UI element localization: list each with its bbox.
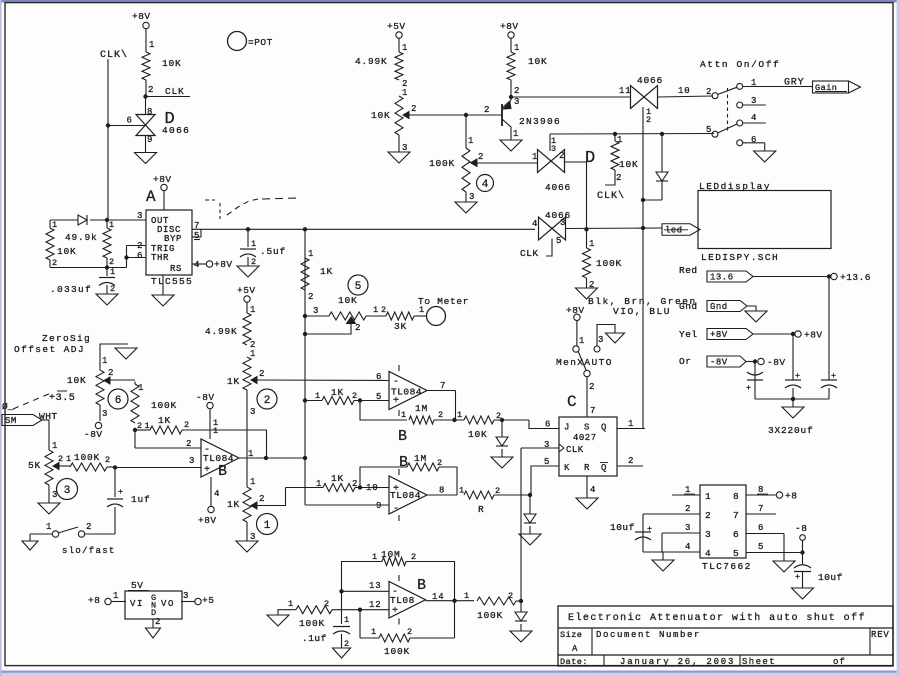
svg-text:2: 2 (381, 305, 387, 315)
svg-text:RS: RS (170, 264, 182, 274)
svg-text:1: 1 (138, 383, 144, 393)
svg-text:3: 3 (551, 144, 557, 154)
svg-text:1: 1 (250, 477, 256, 487)
svg-text:2: 2 (411, 552, 417, 562)
svg-text:+: + (647, 524, 653, 534)
svg-text:+: + (118, 487, 124, 497)
svg-text:MenXAUTO: MenXAUTO (556, 357, 613, 368)
svg-text:-8V: -8V (710, 358, 728, 368)
svg-text:1: 1 (401, 410, 407, 420)
svg-text:VI: VI (130, 599, 144, 609)
svg-text:2: 2 (186, 439, 192, 449)
svg-text:1: 1 (308, 249, 314, 259)
svg-text:4.99K: 4.99K (355, 56, 388, 67)
svg-text:6: 6 (376, 372, 382, 382)
svg-text:-8V: -8V (84, 429, 103, 440)
svg-text:13: 13 (369, 581, 381, 591)
svg-text:R: R (478, 504, 485, 515)
svg-text:+8: +8 (785, 491, 797, 502)
svg-text:+: + (831, 371, 837, 381)
svg-text:CLK: CLK (165, 86, 185, 97)
svg-text:10: 10 (366, 483, 378, 493)
svg-text:1K: 1K (227, 499, 240, 510)
svg-text:2: 2 (685, 504, 691, 514)
svg-text:2: 2 (514, 86, 520, 96)
svg-text:3: 3 (183, 591, 189, 601)
svg-text:-: - (393, 504, 400, 515)
svg-text:1K: 1K (158, 415, 171, 426)
svg-text:K: K (564, 463, 570, 473)
svg-text:B: B (218, 463, 227, 480)
svg-text:+5V: +5V (387, 21, 406, 32)
svg-text:ZeroSig: ZeroSig (42, 333, 91, 344)
svg-text:+8V: +8V (198, 515, 217, 526)
svg-text:of: of (833, 657, 846, 667)
svg-text:1: 1 (514, 43, 520, 53)
svg-text:2: 2 (264, 395, 271, 407)
svg-text:+5V: +5V (237, 285, 256, 296)
svg-text:6: 6 (758, 523, 764, 533)
svg-text:2: 2 (646, 115, 652, 125)
svg-text:4: 4 (705, 548, 712, 559)
svg-text:+3.5: +3.5 (49, 393, 75, 404)
svg-text:2: 2 (52, 258, 58, 268)
svg-text:10uf: 10uf (610, 522, 635, 533)
svg-text:1: 1 (110, 267, 116, 277)
svg-text:S: S (584, 423, 590, 433)
svg-text:1: 1 (102, 356, 108, 366)
svg-text:-8V: -8V (767, 357, 786, 368)
svg-text:2: 2 (478, 152, 484, 162)
svg-text:7: 7 (733, 510, 740, 521)
svg-text:1K: 1K (320, 266, 333, 277)
svg-text:3: 3 (560, 218, 566, 228)
svg-text:+: + (746, 383, 752, 393)
svg-text:2: 2 (355, 323, 361, 333)
svg-text:slo/fast: slo/fast (62, 546, 116, 556)
svg-text:A: A (572, 644, 578, 654)
svg-text:6: 6 (733, 529, 740, 540)
svg-text:Yel: Yel (679, 329, 698, 340)
svg-text:10K: 10K (162, 58, 182, 69)
svg-text:Offset ADJ: Offset ADJ (14, 344, 85, 355)
svg-text:-8: -8 (795, 523, 807, 534)
svg-text:Or: Or (679, 356, 691, 367)
svg-text:CLK\: CLK\ (100, 49, 128, 61)
svg-text:.5uf: .5uf (260, 246, 286, 257)
svg-text:+5: +5 (202, 595, 214, 606)
svg-text:+: + (392, 606, 399, 617)
svg-text:4.99K: 4.99K (205, 326, 238, 337)
svg-text:7: 7 (440, 381, 446, 391)
svg-text:SM: SM (5, 416, 17, 426)
svg-text:led: led (665, 226, 683, 236)
svg-text:6: 6 (751, 135, 757, 145)
svg-text:10K: 10K (619, 159, 639, 170)
svg-text:4066: 4066 (162, 125, 190, 136)
svg-text:1: 1 (213, 426, 219, 436)
svg-text:1: 1 (705, 491, 712, 502)
svg-text:-: - (204, 445, 211, 456)
svg-text:1: 1 (685, 485, 691, 495)
svg-text:1: 1 (52, 441, 58, 451)
svg-text:2: 2 (108, 368, 114, 378)
svg-text:2: 2 (155, 617, 161, 627)
svg-text:1: 1 (149, 40, 155, 50)
svg-text:1: 1 (315, 391, 321, 401)
svg-text:4: 4 (532, 219, 538, 229)
svg-text:TLC555: TLC555 (151, 276, 193, 287)
svg-text:Ø_: Ø_ (2, 401, 14, 412)
svg-text:-: - (393, 377, 400, 388)
svg-text:LEDISPY.SCH: LEDISPY.SCH (701, 252, 779, 263)
svg-text:Q: Q (601, 423, 607, 433)
svg-text:3: 3 (250, 407, 256, 417)
svg-text:1: 1 (372, 552, 378, 562)
svg-text:3: 3 (102, 409, 108, 419)
svg-text:10K: 10K (67, 375, 87, 386)
svg-text:1: 1 (251, 239, 257, 249)
svg-text:1: 1 (457, 410, 463, 420)
svg-text:.1uf: .1uf (302, 633, 327, 644)
svg-text:BYP: BYP (164, 234, 182, 244)
svg-text:+: + (204, 465, 211, 476)
svg-text:2: 2 (705, 510, 712, 521)
svg-text:CLK: CLK (566, 445, 584, 455)
svg-text:5: 5 (706, 125, 712, 135)
svg-text:2: 2 (706, 87, 712, 97)
svg-text:8: 8 (733, 491, 740, 502)
svg-text:Document Number: Document Number (596, 630, 701, 640)
svg-text:CLK: CLK (520, 248, 539, 259)
svg-text:5: 5 (733, 548, 740, 559)
svg-text:+8V: +8V (710, 330, 728, 340)
svg-text:3X220uf: 3X220uf (768, 425, 814, 436)
svg-text:5: 5 (544, 457, 550, 467)
svg-text:1: 1 (248, 449, 254, 459)
svg-text:7: 7 (590, 406, 596, 416)
svg-text:B: B (398, 428, 407, 445)
svg-text:+8V: +8V (214, 259, 233, 270)
svg-text:10K: 10K (371, 110, 391, 121)
svg-text:1: 1 (250, 305, 256, 315)
svg-text:4066: 4066 (637, 75, 663, 86)
svg-text:1: 1 (52, 220, 58, 230)
svg-text:9: 9 (147, 135, 153, 145)
svg-text:3: 3 (514, 97, 520, 107)
svg-text:1: 1 (288, 599, 294, 609)
svg-text:1K: 1K (331, 473, 344, 484)
svg-text:1: 1 (66, 454, 72, 464)
svg-text:2: 2 (484, 105, 490, 115)
svg-text:1K: 1K (227, 376, 240, 387)
svg-text:2: 2 (110, 284, 116, 294)
svg-text:+: + (795, 371, 801, 381)
svg-text:4: 4 (751, 113, 757, 123)
svg-text:2: 2 (86, 522, 92, 532)
svg-text:4066: 4066 (545, 210, 571, 221)
svg-text:1: 1 (468, 136, 474, 146)
svg-text:10K: 10K (528, 56, 548, 67)
svg-text:R: R (584, 463, 590, 473)
svg-text:4027: 4027 (573, 433, 597, 443)
svg-text:Electronic Attenuator with aut: Electronic Attenuator with auto shut off (568, 612, 866, 624)
svg-text:6: 6 (127, 116, 133, 126)
svg-text:4066: 4066 (545, 182, 571, 193)
svg-text:GRY: GRY (784, 78, 804, 89)
svg-text:10K: 10K (57, 246, 77, 257)
svg-text:2: 2 (308, 292, 314, 302)
svg-text:2: 2 (616, 173, 622, 183)
svg-text:2: 2 (105, 455, 111, 465)
svg-text:12: 12 (369, 600, 381, 610)
svg-text:5: 5 (355, 281, 362, 293)
svg-text:VO: VO (161, 599, 175, 609)
svg-text:2: 2 (438, 410, 444, 420)
svg-text:2N3906: 2N3906 (519, 116, 561, 127)
svg-text:3: 3 (598, 335, 604, 345)
svg-text:1: 1 (373, 305, 379, 315)
svg-text:1: 1 (113, 591, 119, 601)
svg-text:1uf: 1uf (131, 494, 151, 505)
svg-text:2: 2 (559, 151, 565, 161)
svg-text:-8V: -8V (196, 392, 215, 403)
svg-text:Sheet: Sheet (742, 657, 776, 667)
svg-text:2: 2 (352, 391, 358, 401)
svg-text:2: 2 (58, 454, 64, 464)
svg-text:1: 1 (402, 43, 408, 53)
svg-text:B: B (399, 454, 408, 471)
svg-text:3: 3 (52, 490, 58, 500)
svg-text:10uf: 10uf (818, 572, 843, 583)
svg-text:1: 1 (628, 419, 634, 429)
svg-text:C: C (567, 393, 577, 411)
svg-text:8: 8 (439, 486, 445, 496)
svg-text:+8V: +8V (132, 11, 151, 22)
svg-text:5: 5 (556, 236, 562, 246)
svg-text:1: 1 (579, 336, 585, 346)
svg-text:6: 6 (545, 420, 551, 430)
svg-text:100K: 100K (477, 610, 503, 621)
svg-text:2: 2 (589, 382, 595, 392)
svg-text:VIO, BLU: VIO, BLU (613, 306, 671, 317)
svg-text:CLK\: CLK\ (597, 190, 625, 202)
svg-text:100K: 100K (74, 452, 100, 463)
svg-text:3: 3 (313, 306, 319, 316)
svg-text:2: 2 (508, 591, 514, 601)
svg-text:1: 1 (109, 220, 115, 230)
svg-text:11: 11 (619, 86, 631, 96)
svg-text:10: 10 (678, 86, 690, 96)
svg-text:A: A (146, 188, 156, 206)
svg-text:1: 1 (589, 239, 595, 249)
svg-text:January 26, 2003: January 26, 2003 (620, 657, 735, 667)
svg-text:Gnd: Gnd (710, 302, 728, 312)
svg-text:+: + (795, 572, 801, 582)
svg-text:B: B (417, 577, 426, 594)
svg-text:5V: 5V (131, 580, 143, 591)
svg-text:1: 1 (532, 152, 538, 162)
svg-text:4: 4 (214, 489, 220, 499)
svg-text:3: 3 (64, 485, 71, 497)
svg-text:9: 9 (376, 501, 382, 511)
svg-text:+13.6: +13.6 (840, 272, 871, 283)
svg-text:2: 2 (628, 456, 634, 466)
svg-text:Red: Red (679, 265, 698, 276)
svg-text:1: 1 (46, 522, 52, 532)
svg-text:1: 1 (316, 479, 322, 489)
svg-text:Date:: Date: (560, 657, 588, 667)
svg-text:+8V: +8V (153, 174, 172, 185)
svg-text:1: 1 (464, 591, 470, 601)
svg-text:2: 2 (407, 627, 413, 637)
svg-text:100K: 100K (384, 646, 410, 657)
svg-text:10K: 10K (338, 295, 358, 306)
svg-text:=POT: =POT (248, 37, 273, 48)
svg-text:3K: 3K (394, 321, 407, 332)
svg-text:4: 4 (685, 542, 691, 552)
svg-text:3: 3 (189, 456, 195, 466)
svg-text:3: 3 (469, 192, 475, 202)
svg-text:2: 2 (148, 85, 154, 95)
svg-text:2: 2 (411, 104, 417, 114)
svg-text:2: 2 (259, 369, 265, 379)
svg-text:2: 2 (259, 494, 265, 504)
svg-text:100K: 100K (299, 618, 325, 629)
svg-text:100K: 100K (429, 158, 455, 169)
svg-text:Q: Q (601, 463, 607, 473)
svg-text:+8V: +8V (804, 330, 823, 341)
svg-text:1: 1 (371, 627, 377, 637)
svg-text:4: 4 (194, 260, 200, 270)
svg-text:2: 2 (184, 420, 190, 430)
svg-text:4: 4 (482, 179, 489, 191)
svg-text:TLC7662: TLC7662 (702, 561, 752, 572)
svg-text:1: 1 (264, 520, 271, 532)
svg-text:5K: 5K (28, 460, 41, 471)
svg-text:100K: 100K (151, 400, 177, 411)
svg-text:3: 3 (705, 529, 712, 540)
svg-text:-: - (392, 587, 399, 598)
svg-text:1: 1 (513, 129, 519, 139)
svg-text:+8: +8 (88, 595, 100, 606)
svg-text:1M: 1M (415, 403, 428, 414)
svg-text:5: 5 (758, 542, 764, 552)
svg-text:100K: 100K (596, 258, 622, 269)
svg-text:+: + (393, 484, 400, 495)
svg-text:6: 6 (115, 395, 122, 407)
svg-text:8: 8 (758, 485, 764, 495)
svg-text:Size: Size (560, 630, 582, 640)
svg-text:+: + (393, 396, 400, 407)
svg-text:49.9k: 49.9k (65, 232, 98, 243)
svg-text:REV: REV (871, 630, 890, 640)
svg-text:1: 1 (344, 615, 350, 625)
svg-text:J: J (564, 423, 570, 433)
svg-text:10K: 10K (468, 429, 488, 440)
svg-text:7: 7 (758, 504, 764, 514)
svg-text:1K: 1K (331, 387, 344, 398)
svg-text:To Meter: To Meter (418, 296, 469, 307)
svg-text:4: 4 (590, 485, 596, 495)
svg-text:13.6: 13.6 (710, 273, 734, 283)
svg-text:1: 1 (250, 349, 256, 359)
svg-text:2: 2 (324, 599, 330, 609)
svg-text:8: 8 (147, 107, 153, 117)
svg-text:3: 3 (685, 523, 691, 533)
svg-text:+8V: +8V (500, 21, 519, 32)
svg-text:2: 2 (109, 257, 115, 267)
svg-text:Attn On/Off: Attn On/Off (700, 59, 780, 70)
svg-text:6: 6 (137, 251, 143, 261)
svg-text:THR: THR (151, 253, 169, 263)
svg-text:1: 1 (402, 88, 408, 98)
svg-text:.033uf: .033uf (50, 284, 92, 295)
